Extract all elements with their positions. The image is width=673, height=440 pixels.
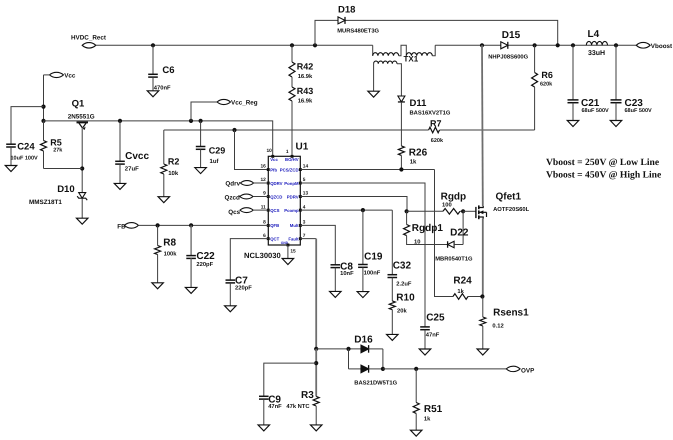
node junction C19 tap — [361, 208, 365, 212]
svg-text:HVDC_Rect: HVDC_Rect — [71, 35, 107, 42]
node junction Vcc rail tap — [41, 119, 45, 123]
ground Rsens1 — [477, 349, 489, 355]
wire Pcomp branch — [300, 209, 392, 211]
svg-text:QZCD: QZCD — [270, 194, 282, 199]
svg-text:R24: R24 — [453, 276, 472, 287]
svg-text:C25: C25 — [426, 312, 445, 323]
resistor R5 — [41, 121, 83, 169]
capacitor C8 — [300, 225, 354, 291]
svg-text:L4: L4 — [588, 29, 600, 40]
terminal Vcc — [50, 72, 76, 79]
transformer TX1 aux winding — [374, 61, 402, 96]
svg-text:20k: 20k — [397, 307, 407, 314]
svg-text:68uF 500V: 68uF 500V — [625, 108, 653, 114]
svg-text:NHPJ08S600G: NHPJ08S600G — [488, 54, 528, 61]
resistor R42 — [289, 45, 313, 80]
capacitor Cvcc — [115, 121, 149, 183]
resistor R2 — [161, 130, 180, 197]
svg-text:C6: C6 — [162, 65, 174, 76]
svg-text:14: 14 — [303, 164, 309, 170]
node junction C21 tap — [571, 43, 575, 47]
svg-text:R26: R26 — [409, 148, 428, 159]
node junction Vcc_Reg tap — [189, 119, 193, 123]
capacitor C19 — [358, 210, 383, 291]
svg-text:C29: C29 — [209, 145, 226, 155]
svg-text:C22: C22 — [196, 251, 215, 262]
node junction Cvcc tap — [118, 119, 122, 123]
svg-text:R51: R51 — [424, 404, 443, 415]
ground C8 — [330, 291, 342, 297]
wire Fault branch — [300, 239, 316, 349]
svg-text:R2: R2 — [168, 156, 180, 166]
ground R2 — [158, 197, 170, 203]
svg-text:C32: C32 — [393, 260, 412, 271]
chip U1 pin stubs — [267, 155, 302, 247]
svg-text:Vboost = 250V @ Low Line: Vboost = 250V @ Low Line — [546, 157, 660, 168]
svg-text:Qzcd: Qzcd — [225, 195, 241, 202]
svg-text:100nF: 100nF — [364, 270, 381, 277]
wire Qfet1 drain — [481, 45, 484, 206]
node junction source sense — [480, 294, 484, 298]
resistor Rsens1 — [480, 297, 529, 349]
resistor R10 — [389, 293, 415, 335]
svg-text:R43: R43 — [297, 86, 314, 96]
svg-text:33uH: 33uH — [588, 50, 605, 57]
node junction Pfb tap — [232, 128, 236, 132]
svg-text:Cvcc: Cvcc — [125, 151, 149, 162]
ground C21 — [567, 121, 579, 127]
svg-text:8: 8 — [263, 220, 266, 226]
node junction R6 tap — [533, 43, 537, 47]
svg-text:220pF: 220pF — [235, 284, 252, 291]
node junction C29 tap — [199, 119, 203, 123]
wire Vcc rail — [44, 121, 273, 156]
ground C24 — [5, 166, 17, 172]
ground C23 — [610, 121, 622, 127]
node junction R26 bottom — [399, 167, 403, 171]
ground R51 — [410, 430, 422, 436]
svg-text:BO/HV: BO/HV — [285, 157, 299, 162]
transistor Q1 — [68, 99, 95, 130]
zener diode D10 — [29, 184, 87, 218]
svg-text:Qfet1: Qfet1 — [496, 192, 522, 203]
terminal FB — [117, 223, 138, 231]
svg-text:R6: R6 — [541, 70, 553, 80]
node junction Rgdp left — [405, 209, 409, 213]
svg-text:D11: D11 — [410, 98, 428, 109]
diode D18 — [337, 5, 379, 35]
resistor R7 — [429, 119, 444, 144]
svg-text:D22: D22 — [450, 228, 469, 239]
resistor R6 — [532, 45, 554, 130]
capacitor C32 — [388, 210, 412, 301]
resistor Rgdp — [407, 192, 467, 215]
svg-text:11: 11 — [261, 204, 266, 210]
svg-text:4: 4 — [303, 204, 306, 210]
svg-text:2N5551G: 2N5551G — [68, 113, 95, 120]
svg-text:68uF 500V: 68uF 500V — [582, 108, 610, 114]
ground R8 — [152, 283, 164, 289]
svg-text:FB: FB — [117, 223, 126, 230]
capacitor C6 — [148, 45, 174, 91]
svg-text:AOTF20S60L: AOTF20S60L — [493, 206, 530, 213]
svg-text:10: 10 — [266, 148, 272, 154]
wire PDRV branch — [300, 197, 407, 212]
svg-text:16: 16 — [260, 164, 266, 170]
svg-text:QCT: QCT — [270, 236, 279, 241]
svg-text:Rgdp: Rgdp — [441, 192, 467, 203]
capacitor C29 — [196, 121, 226, 167]
svg-text:3: 3 — [303, 220, 306, 226]
terminal Qdrv — [225, 180, 268, 187]
resistor R26 — [398, 102, 427, 170]
capacitor C24 — [6, 107, 43, 166]
svg-text:Vboost = 450V @ High Line: Vboost = 450V @ High Line — [546, 170, 662, 181]
capacitor C7 — [226, 239, 269, 306]
svg-text:9: 9 — [263, 191, 266, 197]
svg-text:16.9k: 16.9k — [298, 73, 313, 80]
svg-text:Vcc_Reg: Vcc_Reg — [231, 99, 258, 106]
svg-text:Pfb: Pfb — [270, 167, 277, 172]
svg-text:R5: R5 — [50, 137, 62, 147]
resistor Rgdp1 — [404, 211, 448, 245]
svg-text:620k: 620k — [540, 81, 553, 87]
chip U1 pin numbers — [260, 148, 308, 254]
svg-text:Vcc: Vcc — [64, 73, 76, 80]
wire FB to QFB pin — [138, 224, 268, 226]
terminal HVDC_Rect — [71, 35, 107, 48]
svg-text:C24: C24 — [17, 142, 35, 153]
capacitor C21 — [568, 45, 610, 120]
svg-text:1k: 1k — [424, 415, 431, 422]
ground D10 — [76, 218, 88, 224]
wire Q1 emitter — [81, 128, 83, 192]
node junction D18 right — [556, 43, 560, 47]
chip U1 pin names — [270, 157, 299, 245]
ground TX1 aux — [368, 91, 380, 97]
node junction C22 tap — [189, 223, 193, 227]
svg-text:MBR0540T1G: MBR0540T1G — [435, 256, 473, 263]
svg-text:Pcomp: Pcomp — [284, 208, 299, 213]
resistor R24 — [453, 276, 482, 300]
wire HVDC rail — [96, 44, 373, 46]
ground R3 — [310, 425, 322, 431]
op-amp U1 NCL30030 body — [244, 142, 309, 260]
svg-text:D18: D18 — [338, 5, 355, 16]
diode D16 — [316, 334, 397, 386]
svg-text:1uf: 1uf — [210, 158, 220, 165]
resistor R3 — [286, 390, 319, 425]
svg-text:12: 12 — [260, 177, 266, 183]
transformer TX1 primary — [373, 45, 436, 63]
svg-text:47nF: 47nF — [268, 404, 282, 410]
ground C25 — [419, 349, 431, 355]
svg-text:10nF: 10nF — [340, 270, 354, 277]
svg-text:Qdrv: Qdrv — [225, 180, 240, 187]
svg-text:C19: C19 — [364, 251, 383, 262]
svg-text:27uF: 27uF — [125, 166, 139, 173]
svg-text:1k: 1k — [410, 158, 417, 165]
diode D15 — [488, 30, 528, 61]
svg-text:10uF 100V: 10uF 100V — [11, 156, 39, 162]
terminal Qzcd — [225, 194, 269, 201]
diode D11 — [398, 96, 451, 117]
svg-text:7: 7 — [303, 233, 306, 239]
inductor L4 — [586, 29, 607, 57]
svg-text:R3: R3 — [301, 390, 314, 401]
svg-text:QFB: QFB — [270, 223, 279, 228]
ground C19 — [357, 292, 369, 298]
node junction C23 tap — [614, 43, 618, 47]
wire D18 branch — [315, 20, 558, 45]
terminal Vboost — [636, 42, 673, 49]
svg-text:QCS: QCS — [270, 208, 279, 213]
wire R43 to BO/HV pin — [291, 101, 293, 156]
svg-text:MURS480ET3G: MURS480ET3G — [337, 28, 379, 35]
note Vboost levels — [546, 157, 662, 181]
node junction C9 tap — [314, 361, 318, 365]
resistor R51 — [413, 369, 442, 430]
svg-text:U1: U1 — [296, 142, 309, 153]
svg-text:13: 13 — [303, 191, 309, 197]
node junction R42 tap — [290, 43, 294, 47]
wire boost rail — [435, 44, 636, 46]
wire divider rail — [164, 129, 535, 131]
svg-text:5: 5 — [303, 177, 306, 183]
svg-text:1: 1 — [286, 149, 289, 155]
ground C29 — [195, 168, 207, 174]
svg-text:Mult: Mult — [290, 223, 299, 228]
svg-text:PCS/ZCD: PCS/ZCD — [280, 167, 299, 172]
svg-text:Rgdp1: Rgdp1 — [412, 223, 444, 234]
wire Fault to R3 — [315, 349, 317, 397]
wire Qfet1 source — [482, 219, 484, 297]
terminal Vcc_Reg — [191, 99, 258, 121]
svg-text:R42: R42 — [297, 62, 314, 72]
ground C7 — [225, 306, 237, 312]
node junction gate — [461, 209, 465, 213]
svg-text:Vboost: Vboost — [651, 43, 673, 50]
capacitor C23 — [611, 45, 653, 120]
svg-text:NCL30030: NCL30030 — [244, 251, 281, 260]
resistor R43 — [289, 77, 313, 105]
diode D22 — [435, 211, 473, 262]
ground C6 — [147, 91, 159, 97]
svg-text:PDRV: PDRV — [287, 194, 299, 199]
svg-text:Rsens1: Rsens1 — [493, 308, 529, 319]
svg-text:Q1: Q1 — [72, 99, 85, 110]
node junction D18 left — [313, 43, 317, 47]
svg-text:2.2uF: 2.2uF — [396, 281, 412, 288]
svg-text:OVP: OVP — [521, 368, 534, 375]
svg-text:10: 10 — [414, 239, 420, 246]
svg-text:QDRV: QDRV — [270, 181, 282, 186]
node junction C6 tap — [151, 43, 155, 47]
svg-text:R8: R8 — [163, 237, 176, 248]
node junction R51 tap — [414, 367, 418, 371]
svg-text:TX1: TX1 — [404, 55, 419, 64]
wire PCS sense net — [300, 170, 453, 297]
svg-text:D10: D10 — [57, 184, 74, 195]
node junction D16 top tap — [314, 347, 318, 351]
svg-text:100: 100 — [442, 201, 452, 208]
svg-text:16.9k: 16.9k — [298, 98, 313, 105]
svg-text:1k: 1k — [457, 288, 464, 295]
svg-text:220pF: 220pF — [196, 261, 213, 268]
ground C22 — [185, 287, 197, 293]
ground Cvcc — [114, 183, 126, 189]
svg-text:100k: 100k — [164, 251, 178, 258]
wire gate — [463, 210, 476, 212]
capacitor C25 — [300, 183, 445, 349]
ground C9 — [258, 425, 270, 431]
svg-text:Qcs: Qcs — [228, 209, 240, 216]
capacitor C9 — [259, 363, 316, 425]
svg-text:27k: 27k — [53, 147, 63, 153]
svg-text:0.12: 0.12 — [492, 322, 503, 329]
svg-text:6: 6 — [263, 233, 266, 239]
capacitor C22 — [186, 225, 215, 287]
wire Pfb branch — [235, 130, 269, 170]
svg-text:620k: 620k — [431, 138, 444, 144]
svg-text:10k: 10k — [168, 170, 179, 177]
svg-text:R7: R7 — [430, 119, 442, 129]
svg-text:D15: D15 — [502, 30, 521, 41]
svg-text:Vcc: Vcc — [270, 157, 278, 162]
ground U1 — [282, 259, 294, 265]
svg-text:BAS16XV2T1G: BAS16XV2T1G — [410, 110, 451, 117]
wire OVP net — [383, 368, 507, 370]
ground R10 — [387, 334, 399, 340]
svg-text:PonpM: PonpM — [284, 181, 299, 186]
svg-text:R10: R10 — [396, 293, 415, 304]
svg-text:47k NTC: 47k NTC — [286, 403, 310, 410]
svg-text:Fault: Fault — [288, 236, 299, 241]
svg-text:BAS21DW5T1G: BAS21DW5T1G — [354, 379, 397, 386]
terminal Qcs — [228, 208, 268, 216]
wire U1 GND pin — [287, 245, 289, 258]
transistor Qfet1 — [476, 192, 530, 220]
resistor R8 — [155, 225, 178, 282]
terminal OVP — [506, 366, 534, 375]
svg-text:15: 15 — [290, 248, 296, 254]
node junction C24 tap — [41, 105, 45, 109]
node junction R8 tap — [156, 223, 160, 227]
svg-text:MMSZ18T1: MMSZ18T1 — [29, 199, 62, 206]
svg-text:47nF: 47nF — [426, 332, 440, 338]
node junction drain tap — [480, 43, 484, 47]
node junction R5 emitter — [80, 166, 84, 170]
wire Vcc vertical — [44, 75, 50, 141]
svg-text:D16: D16 — [354, 334, 373, 345]
